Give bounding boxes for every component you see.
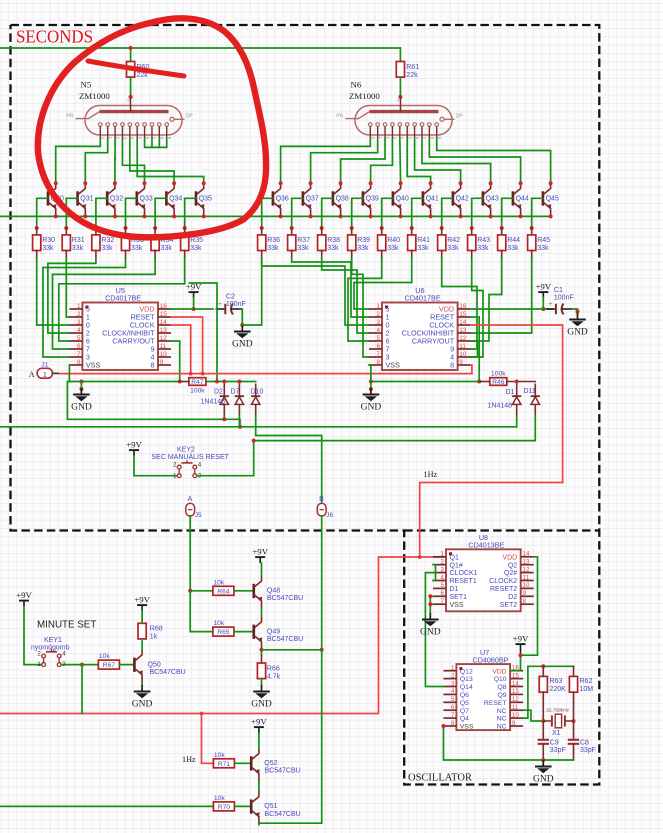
- wire R42 bottom lead: [441, 251, 443, 259]
- svg-text:Q5: Q5: [460, 700, 469, 707]
- node R45 top: [530, 226, 534, 230]
- svg-text:4: 4: [77, 327, 81, 334]
- svg-text:33k: 33k: [161, 245, 173, 252]
- transistor Q38: [333, 183, 342, 216]
- +9V supply: [186, 282, 202, 299]
- node Q36 collector: [279, 181, 283, 185]
- svg-text:Q13: Q13: [460, 676, 473, 683]
- svg-text:33k: 33k: [387, 245, 399, 252]
- svg-text:Q41: Q41: [426, 196, 439, 203]
- +9V supply: [126, 440, 142, 457]
- capacitor C2: [216, 301, 242, 314]
- svg-text:Q50: Q50: [148, 661, 161, 668]
- svg-text:GND: GND: [420, 628, 441, 638]
- +9V supply: [16, 590, 32, 607]
- +9V supply: [251, 717, 267, 734]
- wire R43 bottom lead: [471, 251, 473, 259]
- wire Q43 base: [472, 198, 483, 228]
- svg-text:14: 14: [160, 319, 167, 326]
- wire Q40 base: [382, 198, 393, 228]
- wire Q30 base: [37, 198, 48, 228]
- svg-text:3: 3: [441, 566, 445, 573]
- svg-text:R61: R61: [406, 64, 419, 71]
- wire Q49 emitter to B column: [262, 649, 322, 651]
- node D2 line: [222, 417, 226, 421]
- wire R31 lead: [65, 228, 67, 235]
- svg-text:+9V: +9V: [513, 634, 529, 644]
- svg-text:BC547CBU: BC547CBU: [267, 595, 303, 602]
- svg-text:33k: 33k: [417, 245, 429, 252]
- svg-text:1: 1: [37, 661, 41, 668]
- node Q38 collector: [339, 181, 343, 185]
- svg-text:33k: 33k: [72, 245, 84, 252]
- svg-text:C1: C1: [554, 287, 563, 294]
- node N5 anode: [129, 95, 133, 99]
- wire R35 bottom lead: [184, 251, 186, 259]
- svg-text:13: 13: [459, 327, 466, 334]
- wire N6 cathode 6 to Q42: [415, 139, 461, 183]
- wire Q41 base: [412, 198, 423, 228]
- wire R30 to U5: [37, 258, 70, 325]
- transistor Q49: [254, 617, 262, 650]
- svg-text:C2: C2: [226, 294, 235, 301]
- wire R35 to U5: [59, 258, 185, 341]
- svg-text:33k: 33k: [447, 245, 459, 252]
- svg-text:Q31: Q31: [80, 196, 93, 203]
- crystal X1: [543, 714, 573, 728]
- diode D7: [235, 384, 244, 416]
- wire rail to U7 pin10: [523, 666, 528, 718]
- svg-text:7: 7: [441, 598, 445, 605]
- wire J5 branch down to R65: [190, 591, 213, 632]
- wire R47 leads: [180, 381, 189, 383]
- wire Q50 collector to R68: [141, 641, 143, 650]
- svg-text:1Hz: 1Hz: [182, 755, 196, 764]
- wire R33 bottom lead: [125, 251, 127, 259]
- wire R32 lead: [95, 228, 97, 235]
- transistor Q39: [363, 183, 372, 216]
- svg-text:33k: 33k: [131, 245, 143, 252]
- node osc vss corner: [442, 724, 446, 728]
- svg-text:+9V: +9V: [16, 590, 32, 600]
- wire red branch to R71: [202, 714, 214, 764]
- svg-text:CLOCK1: CLOCK1: [450, 570, 478, 577]
- svg-text:GND: GND: [251, 700, 272, 710]
- wire C1 to gnd: [572, 309, 578, 315]
- wire R37 bottom lead: [291, 251, 293, 259]
- nixie tube N6 ZM1000: [336, 97, 463, 140]
- ground: [251, 685, 272, 710]
- svg-text:9: 9: [459, 359, 463, 366]
- wire U5 9V lead: [193, 298, 195, 310]
- wire KEY1 9V: [24, 607, 42, 665]
- svg-text:33k: 33k: [357, 245, 369, 252]
- wire D1 bottom to A line: [516, 416, 518, 427]
- wire diode row link: [224, 381, 255, 383]
- svg-text:+: +: [218, 301, 222, 308]
- wire Q44 base: [502, 198, 513, 228]
- node R40 top: [380, 226, 384, 230]
- svg-text:11: 11: [523, 574, 530, 581]
- resistor R66: [257, 663, 280, 680]
- svg-text:Q51: Q51: [264, 803, 277, 810]
- wire U6 VSS to gnd rail: [369, 365, 479, 382]
- svg-text:R67: R67: [103, 662, 116, 669]
- wire Q37 base: [292, 198, 303, 228]
- op-amp-ic U6 CD4017BE: [369, 286, 471, 370]
- wire R31 bottom lead: [65, 251, 67, 259]
- svg-text:Q44: Q44: [516, 196, 529, 203]
- capacitor C1: [546, 301, 572, 314]
- node Q40 collector: [399, 181, 403, 185]
- wire N5 cathode 3 to Q33: [122, 139, 144, 183]
- svg-text:D2: D2: [508, 594, 517, 601]
- svg-text:R38: R38: [327, 237, 340, 244]
- svg-text:SECONDS: SECONDS: [16, 27, 93, 47]
- node Q30 emitter: [54, 214, 58, 218]
- wire R36 bottom lead: [261, 251, 263, 259]
- wire 9V lead: [542, 298, 544, 310]
- wire osc bottom rail: [443, 726, 573, 760]
- nixie tube N5 ZM1000: [66, 97, 193, 140]
- diode D11: [531, 384, 540, 416]
- wire R41 lead: [411, 228, 413, 235]
- resistor R45: [528, 235, 551, 252]
- svg-text:3: 3: [77, 319, 81, 326]
- svg-text:Q4: Q4: [460, 716, 469, 723]
- resistor R63: [539, 676, 547, 692]
- svg-text:12: 12: [160, 335, 167, 342]
- svg-text:8: 8: [450, 361, 454, 370]
- svg-text:BC547CBU: BC547CBU: [267, 636, 303, 643]
- node R32 top: [94, 226, 98, 230]
- switch KEY1: [37, 649, 66, 668]
- node R42 top: [440, 226, 444, 230]
- transistor Q42: [453, 183, 462, 216]
- wire U6 RESET drop: [471, 317, 480, 382]
- resistor R37: [288, 235, 311, 252]
- svg-text:BC547CBU: BC547CBU: [265, 811, 301, 818]
- wire R36 to U6: [262, 258, 369, 325]
- wire R36 lead: [261, 228, 263, 235]
- wire U8 VDD rail: [510, 557, 537, 671]
- node Q39 collector: [369, 181, 373, 185]
- wire R34 to U5: [53, 258, 156, 349]
- node anode rail junction: [129, 46, 133, 50]
- svg-text:D1: D1: [450, 586, 459, 593]
- svg-text:5: 5: [441, 582, 445, 589]
- svg-text:R46: R46: [492, 379, 505, 386]
- wire anode N6 drop: [399, 48, 401, 62]
- wire KEY2 out: [197, 475, 254, 477]
- op-amp-ic U7 CD4060BP: [443, 648, 523, 731]
- ground: [533, 760, 554, 785]
- svg-text:22k: 22k: [406, 72, 418, 79]
- svg-text:10k: 10k: [99, 653, 110, 660]
- svg-text:R66: R66: [267, 665, 280, 672]
- node R63 top: [541, 664, 545, 668]
- node R41 top: [410, 226, 414, 230]
- wire R60 to tube: [130, 77, 132, 97]
- transistor Q50: [134, 650, 143, 683]
- node crystal left: [541, 719, 545, 723]
- wire R45 bottom lead: [531, 251, 533, 259]
- svg-text:CARRY/OUT: CARRY/OUT: [112, 337, 155, 346]
- svg-text:Q39: Q39: [366, 196, 379, 203]
- wire Q34 base: [155, 198, 166, 228]
- resistor R67: [98, 653, 119, 669]
- svg-text:D7: D7: [231, 388, 240, 395]
- transistor Q51: [251, 791, 260, 824]
- node KEY1 out: [80, 663, 84, 667]
- svg-text:GND: GND: [132, 700, 153, 710]
- +9V supply: [252, 547, 268, 564]
- svg-text:VSS: VSS: [450, 602, 464, 609]
- svg-text:ZM1000: ZM1000: [79, 91, 110, 101]
- svg-text:Q1#: Q1#: [450, 562, 463, 569]
- svg-text:NC: NC: [497, 724, 507, 731]
- svg-text:1k: 1k: [150, 634, 158, 641]
- ground: [420, 613, 441, 638]
- svg-text:10: 10: [512, 712, 519, 719]
- node red 1Hz junction: [418, 555, 422, 559]
- diode D1: [512, 384, 521, 416]
- wire N5 cathode 5 to Q35: [137, 139, 204, 183]
- svg-text:+9V: +9V: [134, 595, 150, 605]
- svg-text:R43: R43: [477, 237, 490, 244]
- resistor R62: [569, 676, 577, 692]
- wire anode N5 drop: [130, 48, 132, 62]
- wire gnd stub: [80, 382, 82, 390]
- svg-text:4: 4: [441, 574, 445, 581]
- wire U6 VDD: [471, 308, 552, 310]
- svg-text:10: 10: [459, 351, 466, 358]
- svg-text:100nF: 100nF: [226, 301, 246, 308]
- svg-text:1Hz: 1Hz: [424, 470, 438, 479]
- svg-text:8: 8: [77, 359, 81, 366]
- wire 9V to Q48 collector: [261, 563, 263, 576]
- wire Q39 base: [352, 198, 363, 228]
- svg-text:CD4017BE: CD4017BE: [105, 294, 141, 303]
- node U5 VDD 9V: [192, 307, 196, 311]
- svg-text:C8: C8: [580, 740, 589, 747]
- svg-text:1: 1: [43, 371, 47, 378]
- svg-text:R63: R63: [550, 678, 563, 685]
- svg-text:RESET: RESET: [484, 700, 507, 707]
- svg-text:2: 2: [377, 311, 381, 318]
- svg-text:VSS: VSS: [386, 361, 401, 370]
- node R35 top: [183, 226, 187, 230]
- svg-text:11: 11: [160, 343, 167, 350]
- svg-text:KEY2: KEY2: [177, 447, 195, 454]
- wire N5 cathode 4 to Q34: [130, 139, 174, 183]
- svg-text:NC: NC: [497, 716, 507, 723]
- wire KEY2 9V to switch: [134, 456, 177, 476]
- transistor Q41: [423, 183, 432, 216]
- svg-text:R37: R37: [297, 237, 310, 244]
- svg-text:7: 7: [77, 351, 81, 358]
- svg-text:33k: 33k: [297, 245, 309, 252]
- svg-text:4.7k: 4.7k: [267, 673, 281, 680]
- svg-text:R41: R41: [417, 237, 430, 244]
- wire Q36 base: [262, 198, 273, 228]
- wire J5 down lead: [189, 516, 191, 591]
- resistor R60: [127, 62, 150, 79]
- svg-text:12: 12: [523, 566, 530, 573]
- diode D10: [251, 384, 260, 416]
- wire gnd jog to D2 line: [67, 382, 240, 427]
- resistor R44: [498, 235, 521, 252]
- svg-text:R70: R70: [218, 804, 231, 811]
- svg-text:B: B: [319, 496, 324, 503]
- wire R34 lead: [154, 228, 156, 235]
- node SET1: [428, 594, 432, 598]
- svg-text:Q52: Q52: [264, 760, 277, 767]
- node R44 top: [500, 226, 504, 230]
- node D7 top: [237, 380, 241, 384]
- wire R39 to U6: [352, 258, 369, 357]
- wire R62 bottom to crystal row: [573, 692, 575, 721]
- node Q42 emitter: [459, 214, 463, 218]
- wire U6 pin9 red: [471, 365, 472, 374]
- wire R30 lead: [36, 228, 38, 235]
- svg-text:10: 10: [160, 351, 167, 358]
- wire R41 to U6: [354, 258, 412, 309]
- transistor Q31: [78, 183, 87, 216]
- svg-text:J6: J6: [326, 512, 333, 519]
- wire KEY1 out: [61, 664, 82, 666]
- node R46 left: [477, 380, 481, 384]
- svg-text:33pF: 33pF: [550, 747, 566, 754]
- wire Q45 base: [532, 198, 543, 228]
- wire R65 to Q49: [234, 631, 254, 633]
- wire osc top rail: [528, 665, 574, 667]
- wire Q48 emitter to Q49 collector: [261, 609, 263, 617]
- freehand red scribble annotation: [38, 18, 266, 237]
- svg-text:7: 7: [451, 712, 455, 719]
- svg-text:Q43: Q43: [486, 196, 499, 203]
- wire R33 to U5: [43, 258, 126, 357]
- node U6 vss gnd: [369, 380, 373, 384]
- svg-text:GND: GND: [533, 775, 554, 785]
- svg-text:+: +: [549, 301, 553, 308]
- svg-text:6: 6: [377, 343, 381, 350]
- node R31 top: [64, 226, 68, 230]
- node Q49 emitter: [260, 648, 264, 652]
- resistor R68: [138, 623, 163, 640]
- node Q32 emitter: [113, 214, 117, 218]
- svg-text:+9V: +9V: [535, 282, 551, 292]
- node Q31 collector: [83, 181, 87, 185]
- svg-text:CD4017BE: CD4017BE: [405, 294, 441, 303]
- wire N5 cathode 0 to Q30: [56, 139, 101, 183]
- wire R67 to Q50: [119, 664, 134, 666]
- wire R30 bottom lead: [36, 251, 38, 259]
- svg-text:VSS: VSS: [86, 361, 101, 370]
- wire C2 to GND corner: [241, 309, 243, 325]
- svg-text:1N4148: 1N4148: [201, 399, 226, 406]
- switch KEY2: [173, 460, 202, 479]
- svg-text:Q7: Q7: [460, 708, 469, 715]
- transistor Q30: [48, 183, 57, 216]
- svg-text:X1: X1: [552, 730, 561, 737]
- svg-text:13: 13: [512, 688, 519, 695]
- wire R42 to U6 right side: [442, 258, 477, 349]
- wire U6 carry loop: [471, 341, 478, 357]
- svg-text:+9V: +9V: [252, 547, 268, 557]
- node A-line KEY2 jog: [238, 425, 242, 429]
- svg-text:14: 14: [512, 680, 519, 687]
- wire R63 bottom to crystal row: [542, 692, 544, 721]
- svg-text:R32: R32: [101, 237, 114, 244]
- svg-text:R64: R64: [217, 588, 230, 595]
- op-amp-ic U5 CD4017BE: [69, 286, 171, 370]
- ground: [361, 388, 382, 413]
- node crystal right: [572, 719, 576, 723]
- node Q41 emitter: [429, 214, 433, 218]
- svg-text:R30: R30: [42, 237, 55, 244]
- resistor R61: [396, 62, 419, 79]
- svg-text:RESET2: RESET2: [490, 586, 517, 593]
- node R33 top: [124, 226, 128, 230]
- svg-text:Q12: Q12: [460, 668, 473, 675]
- svg-text:PR: PR: [336, 113, 343, 119]
- wire Q49 emitter node: [261, 650, 263, 655]
- wire long A line: [0, 426, 517, 428]
- node VSS gnd: [79, 380, 83, 384]
- wire N6 cathode 0 to Q36: [281, 139, 371, 183]
- wire R36 tail to C2 gnd node: [242, 258, 261, 325]
- svg-text:10: 10: [523, 582, 530, 589]
- wire N5 cathode 2 to Q32: [114, 139, 116, 183]
- wire U5 CLOCK red: [171, 325, 191, 374]
- svg-text:11: 11: [459, 343, 466, 350]
- node Q44 collector: [519, 181, 523, 185]
- node N6 anode: [398, 95, 402, 99]
- wire R33 lead: [125, 228, 127, 235]
- svg-text:R62: R62: [580, 678, 593, 685]
- svg-text:A: A: [188, 496, 193, 503]
- node gnd stub: [79, 387, 83, 391]
- wire N6 cathode 3 to Q39: [371, 139, 393, 183]
- node Q37 collector: [309, 181, 313, 185]
- svg-text:1N4148: 1N4148: [488, 403, 513, 410]
- svg-text:GND: GND: [71, 403, 92, 413]
- svg-text:9: 9: [512, 720, 516, 727]
- svg-text:33k: 33k: [267, 245, 279, 252]
- wire D10 to B: [256, 416, 322, 504]
- wire R39 bottom lead: [351, 251, 353, 259]
- svg-text:7: 7: [377, 351, 381, 358]
- svg-text:R40: R40: [387, 237, 400, 244]
- wire R32 bottom lead: [95, 251, 97, 259]
- svg-text:CD4013BE: CD4013BE: [468, 541, 504, 550]
- svg-text:33k: 33k: [327, 245, 339, 252]
- svg-text:R36: R36: [267, 237, 280, 244]
- svg-text:4: 4: [198, 462, 202, 469]
- svg-text:1: 1: [451, 665, 455, 672]
- svg-text:R39: R39: [357, 237, 370, 244]
- svg-text:J1: J1: [41, 362, 48, 369]
- svg-text:10k: 10k: [213, 620, 224, 627]
- svg-text:10k: 10k: [213, 579, 224, 586]
- resistor R71: [213, 752, 234, 768]
- svg-text:CLOCK2: CLOCK2: [489, 578, 517, 585]
- transistor Q33: [137, 183, 146, 216]
- svg-text:3: 3: [451, 680, 455, 687]
- node Q43 emitter: [489, 214, 493, 218]
- svg-text:8: 8: [151, 361, 155, 370]
